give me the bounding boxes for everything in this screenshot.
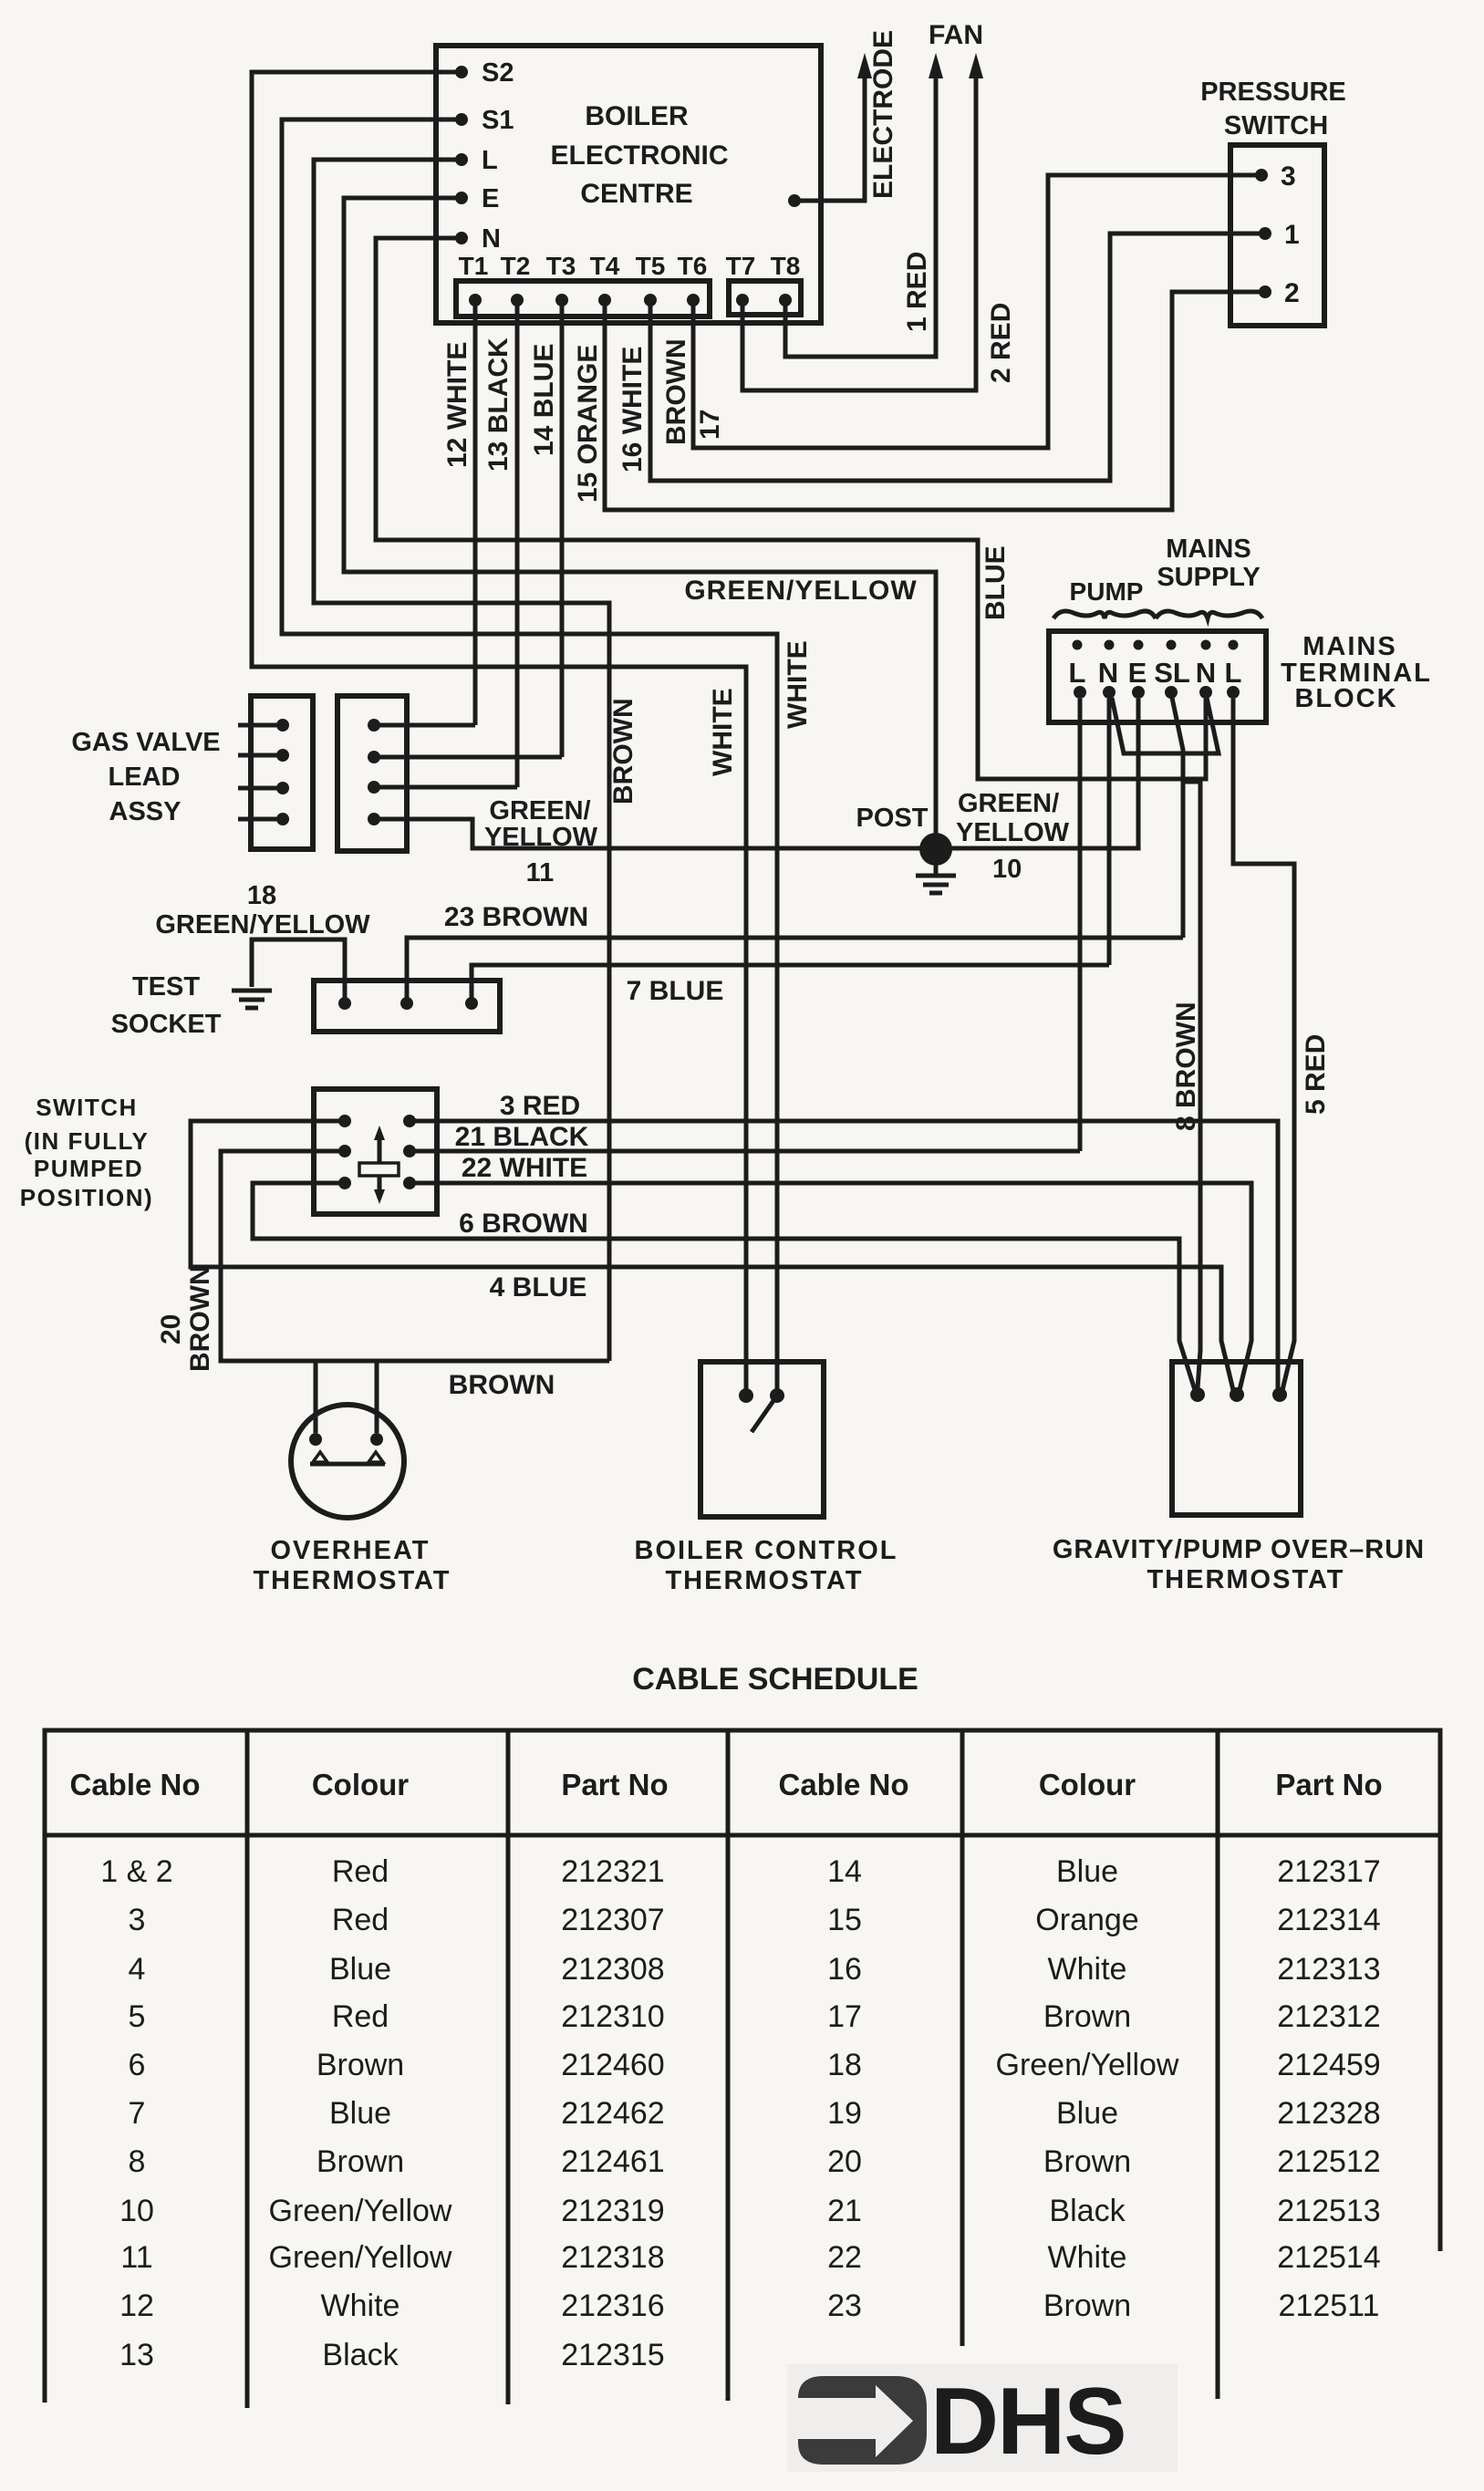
svg-text:Cable No: Cable No xyxy=(69,1768,200,1801)
svg-text:GREEN/: GREEN/ xyxy=(489,796,590,825)
svg-text:1 RED: 1 RED xyxy=(902,252,932,332)
svg-text:3: 3 xyxy=(1281,161,1296,192)
overheat pigtail 1 xyxy=(314,1361,318,1433)
svg-text:T3: T3 xyxy=(546,252,576,280)
svg-text:Part No: Part No xyxy=(561,1768,668,1801)
jumper pump N to mains N xyxy=(1112,698,1219,753)
connector A pin 1 xyxy=(276,719,289,732)
wire pump L to 21 black xyxy=(1078,699,1083,1151)
test socket terminal 2 xyxy=(400,997,413,1010)
svg-text:Brown: Brown xyxy=(1043,2144,1131,2179)
svg-text:LEAD: LEAD xyxy=(109,763,181,792)
svg-text:212307: 212307 xyxy=(561,1903,664,1937)
test socket box xyxy=(314,981,500,1032)
table column line 3 xyxy=(726,1730,731,2401)
switch contact L1 xyxy=(338,1115,351,1127)
terminal T3 xyxy=(555,294,568,306)
svg-text:12: 12 xyxy=(119,2289,154,2323)
pressure switch terminal 1 xyxy=(1259,227,1271,240)
svg-text:8 BROWN: 8 BROWN xyxy=(1171,1002,1201,1131)
wire pump N down to 7 blue xyxy=(1107,699,1112,965)
svg-text:16 WHITE: 16 WHITE xyxy=(617,347,648,472)
svg-text:Colour: Colour xyxy=(312,1768,409,1801)
svg-text:23 BROWN: 23 BROWN xyxy=(444,902,588,932)
wire N blue 19 xyxy=(376,238,1206,779)
wire T5 16 white to pressure switch 1 xyxy=(650,234,1261,481)
wire T7 2 red to fan xyxy=(742,73,976,390)
electrode terminal dot xyxy=(788,194,801,207)
wire pin4 green/yellow 11 to post xyxy=(374,819,923,848)
svg-text:THERMOSTAT: THERMOSTAT xyxy=(253,1566,451,1595)
svg-text:10: 10 xyxy=(992,855,1022,884)
wire 7 blue xyxy=(472,965,1109,1003)
table column line 5 xyxy=(1216,1730,1220,2399)
boiler stat terminal 1 xyxy=(739,1388,753,1403)
svg-text:OVERHEAT: OVERHEAT xyxy=(271,1536,431,1565)
svg-text:N: N xyxy=(1098,657,1118,689)
svg-text:10: 10 xyxy=(119,2194,154,2228)
switch contact R1 xyxy=(403,1115,416,1127)
svg-text:PUMPED: PUMPED xyxy=(34,1155,143,1182)
connector A pin 3 xyxy=(276,782,289,794)
svg-text:Brown: Brown xyxy=(317,2048,404,2082)
svg-text:T4: T4 xyxy=(590,252,620,280)
test socket terminal 1 xyxy=(338,997,351,1010)
wire SL jog to 8 brown xyxy=(1183,782,1200,1388)
svg-text:12 WHITE: 12 WHITE xyxy=(442,342,472,468)
svg-text:212459: 212459 xyxy=(1277,2048,1380,2082)
svg-text:THERMOSTAT: THERMOSTAT xyxy=(665,1566,863,1595)
svg-text:7: 7 xyxy=(129,2096,146,2131)
svg-text:6 BROWN: 6 BROWN xyxy=(459,1209,588,1239)
gas valve lead assy connector A xyxy=(251,696,313,849)
svg-text:22: 22 xyxy=(827,2240,862,2275)
svg-text:SOCKET: SOCKET xyxy=(111,1010,222,1039)
table column line 4 xyxy=(960,1730,965,2346)
terminal E xyxy=(455,192,468,204)
svg-text:212308: 212308 xyxy=(561,1952,664,1987)
svg-text:POST: POST xyxy=(856,804,929,833)
svg-text:T8: T8 xyxy=(771,252,801,280)
svg-text:GREEN/YELLOW: GREEN/YELLOW xyxy=(155,910,370,939)
earth symbol 18 xyxy=(232,989,272,993)
wire switch L2 to overheat brown xyxy=(221,1151,609,1361)
wire 3 red xyxy=(410,1121,1278,1388)
svg-text:(IN FULLY: (IN FULLY xyxy=(25,1127,150,1155)
svg-text:212514: 212514 xyxy=(1277,2240,1380,2275)
svg-text:SL: SL xyxy=(1154,657,1190,689)
svg-text:YELLOW: YELLOW xyxy=(956,818,1070,847)
svg-text:21 BLACK: 21 BLACK xyxy=(455,1122,589,1152)
table header line xyxy=(45,1833,1440,1838)
pressure switch terminal 2 xyxy=(1259,285,1271,298)
block top pins xyxy=(1073,640,1083,650)
svg-text:L: L xyxy=(1069,657,1086,689)
svg-text:Blue: Blue xyxy=(1056,2096,1118,2131)
svg-text:Colour: Colour xyxy=(1039,1768,1136,1801)
svg-text:7 BLUE: 7 BLUE xyxy=(627,976,724,1006)
svg-text:BROWN: BROWN xyxy=(661,338,691,445)
terminal S1 xyxy=(455,113,468,126)
pressure switch terminal 3 xyxy=(1255,169,1268,182)
svg-text:MAINS: MAINS xyxy=(1302,632,1396,661)
mains terminal block box xyxy=(1049,631,1266,722)
svg-text:Green/Yellow: Green/Yellow xyxy=(269,2194,452,2228)
svg-text:Brown: Brown xyxy=(1043,2289,1131,2323)
svg-text:Blue: Blue xyxy=(329,2096,391,2131)
wire 20 brown / 4 blue xyxy=(191,1121,1233,1390)
terminal strip T7-T8 xyxy=(729,281,801,315)
svg-text:3: 3 xyxy=(129,1903,146,1937)
connector A pin 4 xyxy=(276,813,289,825)
svg-text:White: White xyxy=(1048,1952,1127,1987)
switch contact R2 xyxy=(403,1145,416,1157)
svg-text:L: L xyxy=(482,146,498,175)
svg-text:BOILER: BOILER xyxy=(585,101,689,131)
svg-text:BLUE: BLUE xyxy=(981,545,1011,620)
fan arrow 2 xyxy=(969,53,983,78)
wire S2 white xyxy=(252,72,746,1389)
svg-text:14 BLUE: 14 BLUE xyxy=(529,344,559,456)
svg-text:20: 20 xyxy=(156,1314,186,1344)
svg-text:1: 1 xyxy=(1284,220,1300,250)
table frame xyxy=(45,1730,1440,2403)
terminal T8 xyxy=(779,294,792,306)
svg-text:18: 18 xyxy=(827,2048,862,2082)
svg-text:11: 11 xyxy=(526,858,555,887)
svg-text:Black: Black xyxy=(322,2338,399,2372)
terminal strip T1-T6 xyxy=(456,281,710,317)
svg-text:6: 6 xyxy=(129,2048,146,2082)
svg-text:GREEN/YELLOW: GREEN/YELLOW xyxy=(684,576,917,606)
switch contact L3 xyxy=(338,1177,351,1189)
wire 22 white xyxy=(410,1183,1251,1390)
svg-text:S1: S1 xyxy=(482,106,514,135)
svg-text:212328: 212328 xyxy=(1277,2096,1380,2131)
svg-text:ELECTRODE: ELECTRODE xyxy=(868,30,898,199)
svg-text:Brown: Brown xyxy=(317,2144,404,2179)
terminal T5 xyxy=(644,294,657,306)
svg-text:212512: 212512 xyxy=(1277,2144,1380,2179)
svg-text:YELLOW: YELLOW xyxy=(484,823,598,852)
gravity stat terminal 2 xyxy=(1230,1387,1244,1402)
wire 18 green/yellow to earth xyxy=(252,939,345,1003)
wire T2 13 black xyxy=(515,303,520,787)
terminal T7 xyxy=(736,294,749,306)
svg-text:BROWN: BROWN xyxy=(608,698,638,804)
gravity/pump over-run thermostat box xyxy=(1172,1362,1301,1515)
svg-text:23: 23 xyxy=(827,2289,862,2323)
svg-text:THERMOSTAT: THERMOSTAT xyxy=(1147,1565,1344,1594)
post earth symbol xyxy=(934,864,939,874)
wire pin2 to T3 xyxy=(374,755,562,760)
svg-text:15 ORANGE: 15 ORANGE xyxy=(573,345,603,503)
svg-text:Red: Red xyxy=(332,1903,389,1937)
pressure switch box xyxy=(1230,145,1324,326)
svg-text:8: 8 xyxy=(129,2144,146,2179)
svg-text:20: 20 xyxy=(827,2144,862,2179)
boiler stat terminal 2 xyxy=(770,1388,784,1403)
svg-text:4 BLUE: 4 BLUE xyxy=(490,1272,587,1303)
wire 6 brown xyxy=(253,1183,1195,1390)
svg-text:212513: 212513 xyxy=(1277,2194,1380,2228)
wire pin3 to T2 xyxy=(374,785,517,790)
wire T6 17 brown to pressure switch 3 xyxy=(693,175,1257,448)
svg-text:GRAVITY/PUMP OVER–RUN: GRAVITY/PUMP OVER–RUN xyxy=(1053,1535,1425,1564)
svg-text:SWITCH: SWITCH xyxy=(36,1094,138,1121)
wire electrode xyxy=(794,73,865,201)
svg-text:16: 16 xyxy=(827,1952,862,1987)
svg-text:T7: T7 xyxy=(726,252,756,280)
svg-text:19: 19 xyxy=(827,2096,862,2131)
svg-text:PUMP: PUMP xyxy=(1070,577,1144,606)
connector A pin 2 xyxy=(276,749,289,762)
svg-text:Red: Red xyxy=(332,1999,389,2034)
svg-text:18: 18 xyxy=(247,881,276,910)
svg-text:Blue: Blue xyxy=(1056,1854,1118,1889)
svg-text:WHITE: WHITE xyxy=(783,640,813,729)
svg-text:BROWN: BROWN xyxy=(449,1370,555,1400)
svg-text:212462: 212462 xyxy=(561,2096,664,2131)
svg-text:2: 2 xyxy=(1284,278,1300,308)
wire 23 brown xyxy=(407,938,1183,1003)
svg-text:14: 14 xyxy=(827,1854,862,1889)
wire L brown xyxy=(314,160,609,1361)
svg-text:21: 21 xyxy=(827,2194,862,2228)
svg-text:Green/Yellow: Green/Yellow xyxy=(996,2048,1179,2082)
wire SL to 23 brown xyxy=(1172,698,1183,938)
svg-text:GREEN/: GREEN/ xyxy=(958,789,1059,818)
svg-text:CENTRE: CENTRE xyxy=(580,179,692,209)
svg-text:White: White xyxy=(1048,2240,1127,2275)
svg-text:212321: 212321 xyxy=(561,1854,664,1889)
boiler stat lever xyxy=(752,1396,777,1432)
terminal T6 xyxy=(687,294,700,306)
test socket terminal 3 xyxy=(465,997,478,1010)
table column line 1 xyxy=(245,1730,250,2408)
svg-text:CABLE SCHEDULE: CABLE SCHEDULE xyxy=(632,1662,918,1697)
svg-text:BLOCK: BLOCK xyxy=(1294,684,1397,713)
svg-text:2 RED: 2 RED xyxy=(986,303,1016,383)
wire T1 12 white xyxy=(473,303,478,725)
gravity stat terminal 3 xyxy=(1272,1387,1287,1402)
svg-text:ELECTRONIC: ELECTRONIC xyxy=(551,140,729,171)
svg-text:212460: 212460 xyxy=(561,2048,664,2082)
svg-text:Red: Red xyxy=(332,1854,389,1889)
svg-text:13 BLACK: 13 BLACK xyxy=(483,337,514,472)
DHS logo arrow capsule xyxy=(798,2376,927,2465)
svg-text:N: N xyxy=(1196,657,1216,689)
post earth point xyxy=(919,833,952,866)
brace mains supply xyxy=(1156,611,1262,618)
svg-text:17: 17 xyxy=(695,410,725,440)
svg-text:T5: T5 xyxy=(636,252,666,280)
svg-text:E: E xyxy=(482,184,499,213)
svg-text:DHS: DHS xyxy=(930,2369,1126,2475)
svg-text:212316: 212316 xyxy=(561,2289,664,2323)
wire T8 1 red to fan xyxy=(785,73,936,357)
wire 21 black xyxy=(410,1149,1080,1154)
gravity stat terminal 1 xyxy=(1190,1387,1205,1402)
svg-text:5 RED: 5 RED xyxy=(1301,1034,1331,1115)
svg-text:17: 17 xyxy=(827,1999,862,2034)
svg-text:POSITION): POSITION) xyxy=(20,1184,153,1211)
svg-text:212315: 212315 xyxy=(561,2338,664,2372)
connector B pin 1 xyxy=(368,719,380,732)
svg-text:212511: 212511 xyxy=(1279,2289,1380,2323)
svg-text:N: N xyxy=(482,224,501,254)
svg-text:Brown: Brown xyxy=(1043,1999,1131,2034)
gas valve lead assy connector B xyxy=(337,696,407,851)
svg-text:Blue: Blue xyxy=(329,1952,391,1987)
svg-text:E: E xyxy=(1128,657,1147,689)
svg-text:PRESSURE: PRESSURE xyxy=(1200,78,1346,107)
svg-text:FAN: FAN xyxy=(929,20,983,50)
svg-text:22 WHITE: 22 WHITE xyxy=(462,1153,587,1183)
switch actuator slider xyxy=(359,1163,399,1176)
connector B pin 3 xyxy=(368,781,380,794)
boiler electronic centre box U1 xyxy=(436,46,821,323)
brace pump xyxy=(1053,611,1156,618)
svg-text:212313: 212313 xyxy=(1277,1952,1380,1987)
svg-text:4: 4 xyxy=(129,1952,146,1987)
svg-text:SWITCH: SWITCH xyxy=(1224,111,1328,140)
overheat thermostat circle xyxy=(291,1405,404,1518)
svg-text:212461: 212461 xyxy=(561,2144,664,2179)
wire pin1 to T1 xyxy=(374,723,475,728)
svg-text:Orange: Orange xyxy=(1035,1903,1138,1937)
terminal N xyxy=(455,232,468,244)
block bottom terminals xyxy=(1074,686,1086,699)
wire T4 15 orange to pressure switch 2 xyxy=(605,292,1261,510)
electrode arrow xyxy=(857,53,872,78)
wire T3 14 blue xyxy=(560,303,565,757)
svg-text:3 RED: 3 RED xyxy=(500,1091,580,1121)
fan arrow 1 xyxy=(929,53,943,78)
svg-text:ASSY: ASSY xyxy=(109,797,182,826)
svg-text:212318: 212318 xyxy=(561,2240,664,2275)
switch contact L2 xyxy=(338,1145,351,1157)
table rows xyxy=(100,1854,1380,2372)
wire mains L to 5 red xyxy=(1233,699,1294,1390)
overheat bimetal symbol xyxy=(310,1462,385,1467)
connector B pin 4 xyxy=(368,813,380,825)
svg-text:S2: S2 xyxy=(482,58,514,88)
svg-text:Black: Black xyxy=(1049,2194,1126,2228)
connector B pin 2 xyxy=(368,751,380,763)
svg-text:5: 5 xyxy=(129,1999,146,2034)
svg-text:White: White xyxy=(321,2289,400,2323)
svg-text:212312: 212312 xyxy=(1277,1999,1380,2034)
svg-text:Green/Yellow: Green/Yellow xyxy=(269,2240,452,2275)
wire pump E green/yellow 10 xyxy=(950,699,1138,848)
switch box xyxy=(314,1089,437,1214)
svg-text:1 & 2: 1 & 2 xyxy=(100,1854,172,1889)
terminal T4 xyxy=(598,294,611,306)
wire E green/yellow xyxy=(344,198,936,836)
svg-text:T2: T2 xyxy=(501,252,531,280)
svg-text:212310: 212310 xyxy=(561,1999,664,2034)
svg-text:L: L xyxy=(1225,657,1242,689)
svg-text:212319: 212319 xyxy=(561,2194,664,2228)
svg-text:Cable No: Cable No xyxy=(778,1768,908,1801)
terminal S2 xyxy=(455,66,468,78)
svg-text:11: 11 xyxy=(120,2240,152,2275)
DHS logo panel xyxy=(787,2364,1178,2472)
svg-text:MAINS: MAINS xyxy=(1166,535,1251,564)
switch actuator arrow xyxy=(378,1135,382,1195)
svg-text:212317: 212317 xyxy=(1277,1854,1380,1889)
svg-text:BROWN: BROWN xyxy=(185,1265,215,1372)
switch contact R3 xyxy=(403,1177,416,1189)
svg-text:Part No: Part No xyxy=(1275,1768,1382,1801)
terminal T2 xyxy=(511,294,524,306)
svg-text:TEST: TEST xyxy=(132,972,200,1002)
svg-text:T1: T1 xyxy=(459,252,489,280)
table column line 2 xyxy=(506,1730,511,2404)
boiler control thermostat box xyxy=(700,1362,824,1517)
overheat pigtail 2 xyxy=(375,1361,379,1433)
terminal L xyxy=(455,153,468,166)
svg-text:13: 13 xyxy=(119,2338,154,2372)
svg-text:BOILER CONTROL: BOILER CONTROL xyxy=(635,1536,898,1565)
svg-text:WHITE: WHITE xyxy=(708,688,738,776)
terminal T1 xyxy=(469,294,482,306)
svg-text:212314: 212314 xyxy=(1277,1903,1380,1937)
wire S1 white xyxy=(282,119,777,1389)
svg-text:SUPPLY: SUPPLY xyxy=(1157,563,1260,592)
svg-text:T6: T6 xyxy=(678,252,708,280)
svg-text:15: 15 xyxy=(827,1903,862,1937)
svg-text:GAS VALVE: GAS VALVE xyxy=(71,728,220,757)
